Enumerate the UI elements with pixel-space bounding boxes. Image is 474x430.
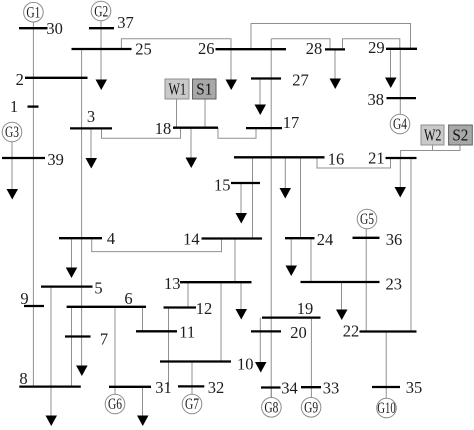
svg-text:18: 18 <box>155 119 172 138</box>
svg-text:10: 10 <box>237 355 254 374</box>
bus 15 <box>214 175 260 194</box>
svg-text:W1: W1 <box>169 80 187 99</box>
wire 26-27-17-16-19-34 vertical <box>270 39 272 398</box>
bus 1 <box>10 97 39 116</box>
load arrow bus 27 <box>255 79 267 116</box>
load arrow bus 15 <box>236 183 248 224</box>
load arrow bus 16 <box>280 157 292 198</box>
bus 18 <box>155 119 218 138</box>
load arrow bus 26 <box>226 80 238 91</box>
svg-text:15: 15 <box>214 175 231 194</box>
bus 3 <box>70 107 112 128</box>
wire 25-26 <box>121 39 231 80</box>
svg-text:5: 5 <box>94 279 102 298</box>
bus 9 <box>20 289 44 308</box>
svg-text:14: 14 <box>183 229 200 248</box>
storage unit S2 <box>449 125 473 145</box>
svg-text:3: 3 <box>87 107 95 126</box>
bus 19 <box>262 299 321 318</box>
wire 34-G8 stem <box>270 388 272 398</box>
wire 12-11-10-31 vertical <box>168 308 170 387</box>
bus 27 <box>251 70 309 89</box>
svg-text:25: 25 <box>135 40 152 59</box>
svg-text:30: 30 <box>46 19 63 38</box>
svg-text:G3: G3 <box>5 124 19 141</box>
svg-text:20: 20 <box>290 323 307 342</box>
wire G2-37-25 vertical <box>100 21 102 80</box>
bus 17 <box>246 113 299 132</box>
svg-text:G7: G7 <box>185 396 199 413</box>
load arrow bus 23 <box>336 282 348 320</box>
svg-text:28: 28 <box>306 39 323 58</box>
generator G10 <box>377 398 397 418</box>
wire 6-11 <box>142 307 144 332</box>
svg-text:7: 7 <box>100 329 108 348</box>
load arrow bus 7 <box>76 366 88 377</box>
load arrow bus 18 <box>186 128 198 168</box>
wire G5-36-23-22 <box>365 229 367 332</box>
wire 14-13 <box>234 239 236 283</box>
svg-text:37: 37 <box>117 13 134 32</box>
wind unit W2 <box>421 125 444 145</box>
svg-text:12: 12 <box>196 299 213 318</box>
svg-text:4: 4 <box>107 229 115 248</box>
svg-text:19: 19 <box>297 299 314 318</box>
wire W1 stem <box>176 99 178 128</box>
svg-text:9: 9 <box>20 289 28 308</box>
svg-text:33: 33 <box>323 378 340 397</box>
wire 5-8 <box>50 287 52 416</box>
svg-text:29: 29 <box>368 38 385 57</box>
load arrow bus 29 <box>385 49 397 88</box>
svg-text:G6: G6 <box>108 396 122 413</box>
bus 21 <box>368 148 416 167</box>
bus 20 <box>251 323 307 342</box>
load arrow bus 4 <box>66 238 78 278</box>
svg-text:38: 38 <box>368 90 385 109</box>
load arrow bus 21 <box>395 158 407 198</box>
svg-text:26: 26 <box>198 39 215 58</box>
bus 7 <box>65 329 108 348</box>
wire 4-14 <box>92 238 222 251</box>
wire 10-32-G7 <box>191 362 193 395</box>
svg-text:32: 32 <box>208 378 225 397</box>
wire 13-10 <box>220 283 222 362</box>
bus 5 <box>41 279 103 298</box>
generator G1 <box>24 2 44 22</box>
svg-text:31: 31 <box>155 378 172 397</box>
svg-text:27: 27 <box>292 70 309 89</box>
load arrow bus 39 <box>7 189 19 200</box>
svg-text:17: 17 <box>283 113 300 132</box>
bus 26 <box>198 39 286 58</box>
bus 37 <box>89 13 134 32</box>
load arrow bus 3 <box>86 128 98 168</box>
load arrow bus 8 <box>46 416 58 427</box>
svg-text:24: 24 <box>317 230 334 249</box>
svg-text:21: 21 <box>368 148 385 167</box>
svg-text:22: 22 <box>343 322 360 341</box>
bus 6 <box>67 289 146 308</box>
bus 10 <box>160 355 254 374</box>
bus 35 <box>372 378 422 397</box>
svg-text:6: 6 <box>124 289 132 308</box>
svg-text:36: 36 <box>386 230 403 249</box>
generator G9 <box>301 398 321 418</box>
bus 31 <box>109 378 172 397</box>
generator G2 <box>91 1 111 21</box>
bus 16 <box>234 150 344 169</box>
wire 6-7-8 <box>71 307 73 387</box>
wire W2-S2-21 <box>401 145 433 158</box>
bus 13 <box>164 274 252 293</box>
svg-text:G10: G10 <box>377 400 396 417</box>
wire 26-28 <box>271 39 330 50</box>
wind unit W1 <box>165 79 189 99</box>
generator G5 <box>357 209 377 229</box>
svg-text:23: 23 <box>386 275 403 294</box>
bus 22 <box>343 322 417 341</box>
bus 4 <box>59 229 115 248</box>
bus 14 <box>183 229 262 248</box>
svg-text:G9: G9 <box>304 400 318 417</box>
wire 3-18 <box>102 128 181 139</box>
load arrow bus 25 <box>96 80 108 91</box>
svg-text:35: 35 <box>406 378 423 397</box>
wire 16-24 <box>300 157 302 238</box>
svg-text:16: 16 <box>328 150 345 169</box>
bus 36 <box>353 230 403 249</box>
svg-text:34: 34 <box>281 378 298 397</box>
generator G7 <box>182 394 202 414</box>
generator G8 <box>262 398 282 418</box>
wire 19-33-G9 <box>310 318 312 398</box>
load arrow bus 31 <box>137 387 149 426</box>
wire 16-21 <box>317 157 391 168</box>
bus 32 <box>178 378 224 397</box>
bus 39 <box>2 150 64 169</box>
svg-text:G8: G8 <box>264 400 278 417</box>
wire 19-20 load <box>259 318 261 363</box>
svg-text:13: 13 <box>164 274 181 293</box>
svg-text:G1: G1 <box>26 4 40 21</box>
wire 29-38-G4 <box>399 49 401 115</box>
wire 6-31-G6 <box>114 307 116 395</box>
storage unit S1 <box>193 79 217 99</box>
load arrow bus 20 <box>255 362 267 373</box>
bus 25 <box>72 40 152 59</box>
bus 34 <box>261 378 298 397</box>
load arrow bus 13 <box>236 283 248 320</box>
bus 38 <box>368 90 416 109</box>
svg-text:G5: G5 <box>360 211 374 228</box>
wire 24-23 <box>310 238 312 282</box>
wire 22-35-G10 <box>385 332 387 399</box>
load arrow bus 24 <box>286 238 298 276</box>
svg-text:G2: G2 <box>94 4 108 21</box>
svg-text:39: 39 <box>47 150 64 169</box>
wire 13-12 <box>187 283 189 308</box>
bus 12 <box>164 299 213 318</box>
svg-text:11: 11 <box>179 323 195 342</box>
wire G1-30-2-1-9-8 vertical <box>32 22 34 387</box>
bus 24 <box>285 230 333 249</box>
bus 30 <box>19 19 63 38</box>
bus 2 <box>16 70 88 89</box>
generator G6 <box>105 394 125 414</box>
bus 8 <box>19 369 81 388</box>
svg-text:S2: S2 <box>452 126 468 145</box>
wire 16-15-14 vertical <box>252 157 254 238</box>
bus 11 <box>136 323 195 342</box>
wire G3-39 load vertical <box>11 142 13 190</box>
bus 28 <box>306 39 345 58</box>
load arrow bus 28 <box>330 49 342 89</box>
bus 33 <box>301 378 339 397</box>
bus 23 <box>301 275 403 294</box>
svg-text:W2: W2 <box>424 126 442 145</box>
wire S1 stem <box>204 99 206 128</box>
svg-text:G4: G4 <box>393 116 407 133</box>
generator G3 <box>2 122 22 142</box>
wire 21-22 <box>410 158 412 332</box>
wire S2 stem <box>432 145 460 151</box>
wire 25-2-3-4-5-6-7 vertical <box>81 49 83 366</box>
svg-text:2: 2 <box>16 70 24 89</box>
svg-text:1: 1 <box>10 97 18 116</box>
svg-text:S1: S1 <box>196 80 212 99</box>
wire 26-29 top <box>251 24 411 50</box>
wire 28-29 <box>343 39 400 50</box>
bus 29 <box>368 38 417 57</box>
wire 18-17 <box>218 128 256 139</box>
generator G4 <box>390 114 410 134</box>
svg-text:8: 8 <box>19 369 27 388</box>
